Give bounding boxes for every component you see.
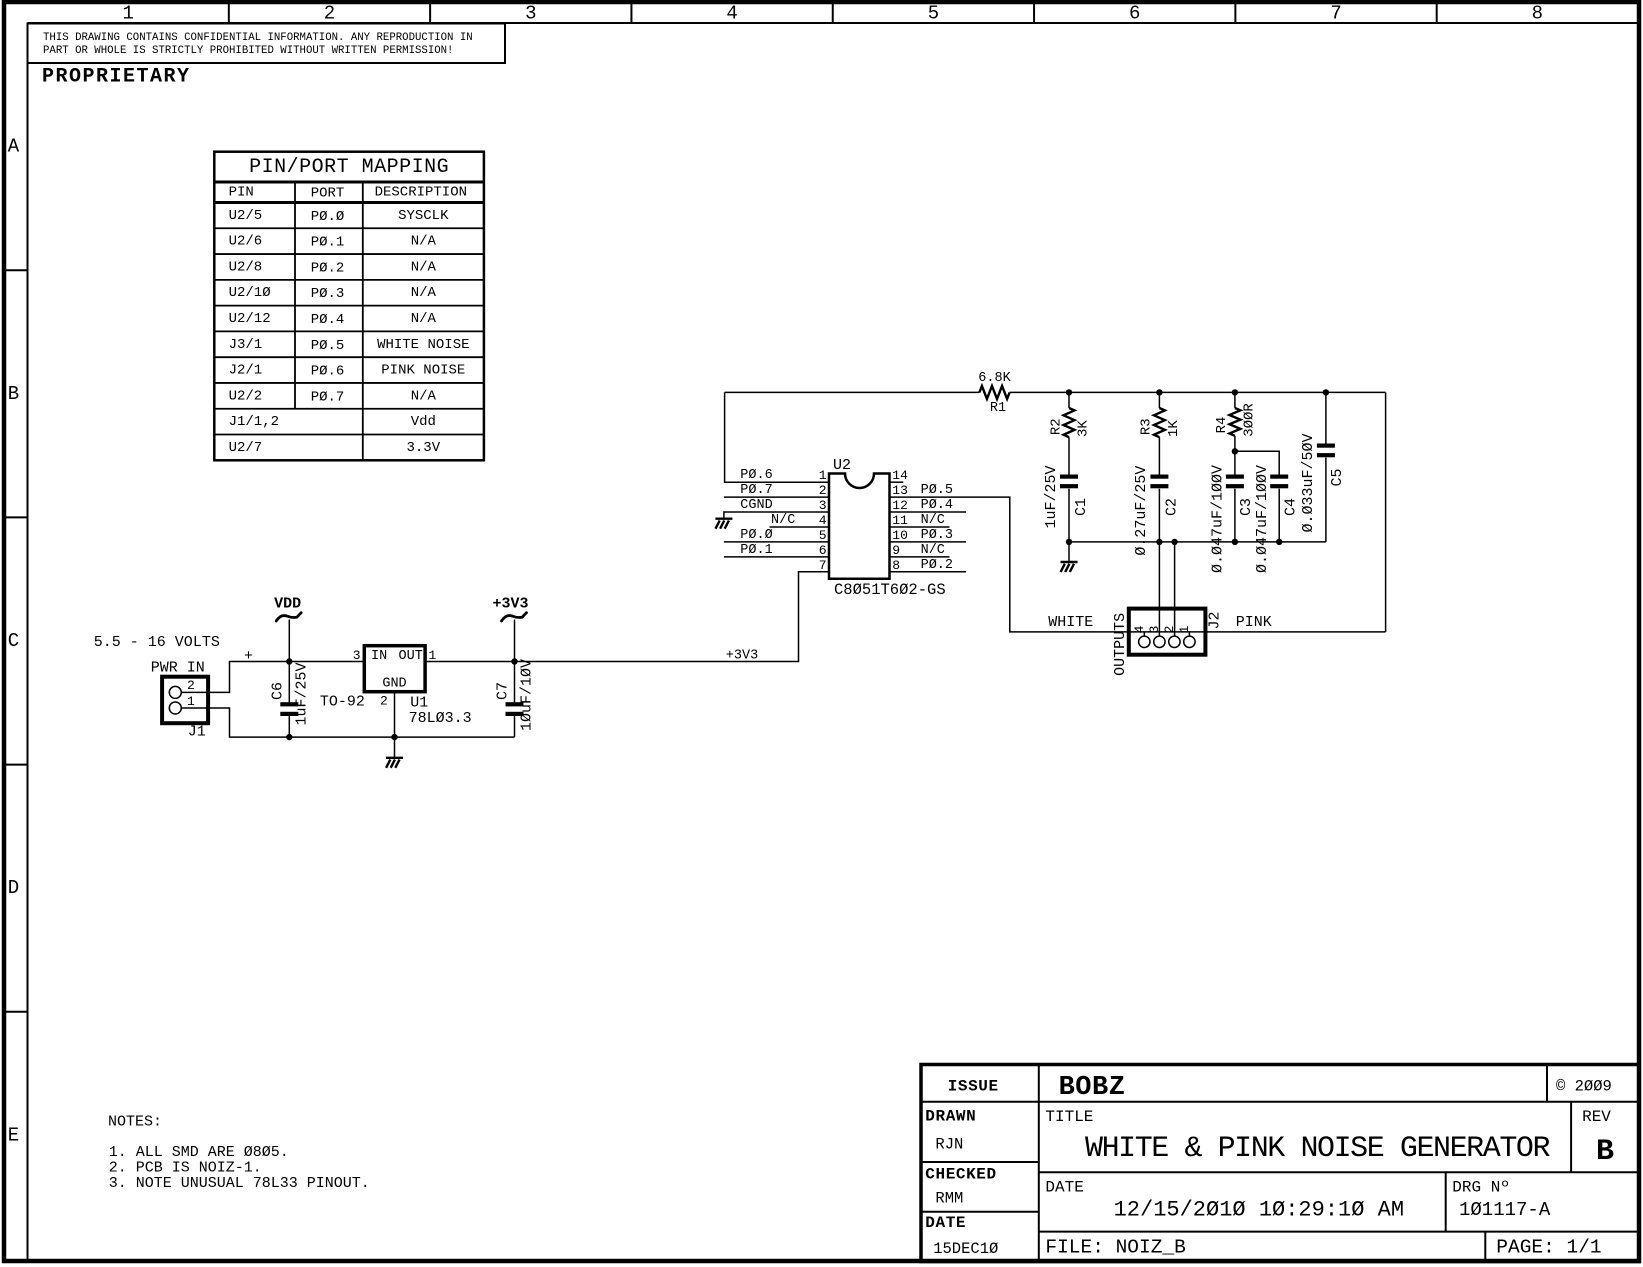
- svg-text:PØ.5: PØ.5: [311, 338, 345, 354]
- svg-text:R2: R2: [1048, 418, 1064, 435]
- svg-text:PART OR WHOLE IS STRICTLY PROH: PART OR WHOLE IS STRICTLY PROHIBITED WIT…: [43, 45, 453, 57]
- svg-text:TO-92: TO-92: [320, 693, 365, 710]
- svg-text:1uF/25V: 1uF/25V: [1043, 465, 1060, 528]
- wire R2 to C1: [1068, 437, 1070, 475]
- svg-text:+3V3: +3V3: [726, 648, 758, 663]
- svg-text:C: C: [8, 630, 19, 652]
- node rail junction R2: [1066, 389, 1072, 395]
- wire rail to C5: [1325, 392, 1327, 444]
- svg-text:11: 11: [892, 513, 908, 528]
- svg-text:N/A: N/A: [411, 388, 437, 404]
- svg-text:DESCRIPTION: DESCRIPTION: [375, 185, 467, 201]
- wire U2 pin12 net P0.4: [890, 511, 967, 513]
- svg-text:Ø.Ø47uF/1ØØV: Ø.Ø47uF/1ØØV: [1210, 465, 1227, 573]
- svg-text:A: A: [8, 136, 20, 158]
- wire top rail P0.6 to R1: [725, 391, 980, 393]
- node rail junction C5: [1323, 389, 1329, 395]
- node R4 bottom junction: [1232, 448, 1238, 454]
- svg-text:PØ.5: PØ.5: [921, 483, 953, 498]
- column index strip: [122, 3, 1543, 25]
- svg-text:5.5 - 16 VOLTS: 5.5 - 16 VOLTS: [94, 634, 220, 651]
- wire U1 GND pin to ground: [394, 692, 396, 758]
- wire J1 pin2 to + rail: [182, 662, 365, 693]
- svg-text:PWR IN: PWR IN: [151, 660, 205, 677]
- svg-text:2. PCB IS NOIZ-1.: 2. PCB IS NOIZ-1.: [109, 1159, 262, 1176]
- svg-text:14: 14: [892, 468, 908, 483]
- svg-text:5: 5: [819, 528, 827, 543]
- node bottom junction C1: [1066, 539, 1072, 545]
- svg-text:1Ø1117-A: 1Ø1117-A: [1459, 1199, 1551, 1221]
- svg-text:PØ.4: PØ.4: [311, 312, 345, 328]
- svg-text:PØ.3: PØ.3: [311, 286, 345, 302]
- svg-text:DRAWN: DRAWN: [925, 1108, 976, 1126]
- svg-text:FILE: NOIZ_B: FILE: NOIZ_B: [1045, 1237, 1185, 1259]
- svg-text:PAGE: 1/1: PAGE: 1/1: [1496, 1237, 1601, 1259]
- title block: [921, 1065, 1639, 1262]
- ground symbol at C1: [1061, 562, 1078, 572]
- svg-text:7: 7: [1330, 3, 1341, 25]
- svg-text:DATE: DATE: [1045, 1179, 1083, 1197]
- row index strip: [5, 136, 28, 1147]
- svg-text:8: 8: [1532, 3, 1543, 25]
- svg-text:C5: C5: [1329, 468, 1346, 486]
- svg-text:B: B: [8, 383, 19, 405]
- svg-text:PØ.1: PØ.1: [740, 543, 772, 558]
- svg-text:3: 3: [1147, 626, 1162, 634]
- wire U2 pin5 net P0.0: [724, 541, 829, 543]
- svg-text:12/15/2Ø1Ø 1Ø:29:1Ø AM: 12/15/2Ø1Ø 1Ø:29:1Ø AM: [1114, 1198, 1404, 1223]
- svg-text:6: 6: [1129, 3, 1140, 25]
- svg-text:U2/5: U2/5: [229, 208, 263, 224]
- svg-text:8: 8: [892, 558, 900, 573]
- wire U2 pin8 net P0.2: [890, 571, 967, 573]
- svg-text:CHECKED: CHECKED: [925, 1166, 996, 1184]
- svg-text:J3/1: J3/1: [229, 337, 263, 353]
- node rail junction R4: [1232, 389, 1238, 395]
- wire J2 pin1 stub: [1188, 632, 1190, 636]
- wire rail to R2: [1068, 392, 1070, 408]
- svg-text:3: 3: [353, 648, 361, 663]
- svg-text:N/A: N/A: [411, 234, 437, 250]
- svg-text:U2/6: U2/6: [229, 234, 263, 250]
- svg-text:R4: R4: [1214, 417, 1230, 434]
- svg-text:OUT: OUT: [399, 649, 423, 664]
- svg-text:REV: REV: [1582, 1108, 1611, 1126]
- connector J2: [1129, 609, 1206, 655]
- svg-text:1ØuF/1ØV: 1ØuF/1ØV: [519, 659, 536, 731]
- svg-text:4: 4: [819, 513, 827, 528]
- svg-text:C1: C1: [1073, 498, 1090, 516]
- svg-text:Ø.Ø33uF/5ØV: Ø.Ø33uF/5ØV: [1300, 433, 1317, 532]
- wire U2 pin4 N/C stub: [770, 526, 830, 528]
- svg-text:THIS DRAWING CONTAINS CONFIDEN: THIS DRAWING CONTAINS CONFIDENTIAL INFOR…: [43, 32, 473, 44]
- svg-text:J2: J2: [1207, 611, 1224, 629]
- svg-text:6.8K: 6.8K: [978, 371, 1011, 386]
- svg-text:VDD: VDD: [274, 596, 301, 613]
- capacitor C1: [1043, 465, 1090, 528]
- svg-text:+3V3: +3V3: [492, 596, 528, 613]
- svg-text:PØ.Ø: PØ.Ø: [740, 528, 772, 543]
- svg-text:12: 12: [892, 498, 908, 513]
- node bottom junction C4: [1276, 539, 1282, 545]
- svg-text:1. ALL SMD ARE Ø8Ø5.: 1. ALL SMD ARE Ø8Ø5.: [109, 1144, 289, 1161]
- wire U2 pin6 net P0.1: [724, 556, 829, 558]
- svg-text:PØ.7: PØ.7: [740, 483, 772, 498]
- svg-text:NOTES:: NOTES:: [108, 1114, 162, 1131]
- svg-text:7: 7: [819, 558, 827, 573]
- wire U2 pin9 N/C stub: [890, 556, 950, 558]
- svg-text:J1: J1: [188, 724, 206, 741]
- svg-text:2: 2: [819, 483, 827, 498]
- svg-text:E: E: [8, 1124, 19, 1146]
- svg-text:PØ.2: PØ.2: [921, 558, 953, 573]
- svg-text:1: 1: [187, 694, 195, 709]
- wire C6 to ground rail: [288, 716, 290, 737]
- ground symbol at U1: [386, 758, 403, 768]
- svg-text:+: +: [244, 648, 253, 665]
- node bottom junction C3: [1232, 539, 1238, 545]
- svg-text:C2: C2: [1163, 498, 1180, 516]
- svg-text:U2/7: U2/7: [229, 440, 263, 456]
- regulator U1 78L03.3: [353, 646, 437, 709]
- svg-text:RJN: RJN: [935, 1136, 963, 1154]
- svg-text:U2/2: U2/2: [229, 388, 263, 404]
- svg-text:N/C: N/C: [921, 513, 945, 528]
- wire J2 pin4 stub: [1143, 632, 1145, 636]
- svg-text:PØ.6: PØ.6: [740, 468, 772, 483]
- svg-text:RMM: RMM: [935, 1190, 963, 1208]
- svg-text:C4: C4: [1282, 498, 1299, 516]
- svg-text:2: 2: [1162, 626, 1177, 634]
- svg-text:PINK: PINK: [1236, 614, 1272, 631]
- svg-text:PØ.1: PØ.1: [311, 235, 345, 251]
- wire U2 pin11 N/C stub: [890, 526, 950, 528]
- wire C5 to bottom rail: [1325, 458, 1327, 542]
- svg-text:IN: IN: [371, 649, 387, 664]
- svg-text:3: 3: [819, 498, 827, 513]
- svg-text:N/C: N/C: [921, 543, 945, 558]
- wire R3 to C2: [1158, 437, 1160, 475]
- svg-text:13: 13: [892, 483, 908, 498]
- svg-text:U2/1Ø: U2/1Ø: [229, 285, 271, 301]
- capacitor C3: [1210, 465, 1255, 573]
- svg-text:3K: 3K: [1076, 420, 1092, 437]
- node C6 bottom junction: [286, 734, 292, 740]
- svg-text:2: 2: [380, 694, 388, 709]
- svg-text:J2/1: J2/1: [229, 363, 263, 379]
- svg-text:D: D: [8, 877, 19, 899]
- svg-text:15DEC1Ø: 15DEC1Ø: [933, 1240, 998, 1258]
- pin/port mapping table: [214, 152, 484, 461]
- svg-text:U2: U2: [833, 457, 851, 474]
- svg-text:BOBZ: BOBZ: [1059, 1073, 1126, 1103]
- svg-text:5: 5: [928, 3, 939, 25]
- svg-text:3ØØR: 3ØØR: [1241, 403, 1257, 437]
- svg-text:N/A: N/A: [411, 285, 437, 301]
- wire U2 pin2 net P0.7: [724, 496, 829, 498]
- wire R1 to C5 rail: [1010, 391, 1386, 393]
- wire C1 junction to ground: [1068, 542, 1070, 562]
- node bottom junction C2: [1156, 539, 1162, 545]
- wire R4 to C3/C4 split: [1234, 436, 1236, 475]
- wire C4 to bottom rail: [1278, 489, 1280, 542]
- connector J1: [162, 677, 208, 724]
- wire J1 pin1 to ground rail: [182, 708, 515, 737]
- svg-text:PØ.7: PØ.7: [311, 389, 345, 405]
- svg-text:U2/8: U2/8: [229, 259, 263, 275]
- svg-text:C3: C3: [1238, 498, 1255, 516]
- capacitor C4: [1254, 465, 1299, 573]
- svg-text:GND: GND: [382, 676, 406, 691]
- svg-text:R3: R3: [1139, 418, 1155, 435]
- wire split to C4: [1235, 451, 1279, 475]
- svg-text:2: 2: [187, 678, 195, 693]
- svg-text:3: 3: [525, 3, 536, 25]
- node rail junction R3: [1156, 389, 1162, 395]
- svg-text:ISSUE: ISSUE: [948, 1078, 999, 1096]
- node C7 top junction: [511, 658, 517, 664]
- capacitor C7: [495, 659, 536, 737]
- svg-text:3.3V: 3.3V: [406, 440, 440, 456]
- svg-text:PINK NOISE: PINK NOISE: [381, 363, 465, 379]
- wire bottom rail: [1069, 541, 1326, 543]
- svg-text:WHITE NOISE: WHITE NOISE: [377, 337, 469, 353]
- svg-text:2: 2: [324, 3, 335, 25]
- node bottom junction J2 pin2 branch: [1171, 539, 1177, 545]
- wire VDD to C6: [288, 620, 290, 704]
- svg-text:C8Ø51T6Ø2-GS: C8Ø51T6Ø2-GS: [834, 581, 946, 599]
- svg-text:B: B: [1596, 1135, 1614, 1169]
- svg-text:PORT: PORT: [311, 186, 345, 202]
- svg-text:C6: C6: [269, 682, 286, 700]
- confidential notice box: [28, 24, 506, 64]
- svg-text:PIN/PORT MAPPING: PIN/PORT MAPPING: [249, 156, 449, 179]
- svg-text:PØ.Ø: PØ.Ø: [311, 209, 345, 225]
- wire C1 to bottom rail: [1068, 489, 1070, 542]
- svg-text:3. NOTE UNUSUAL 78L33 PINOUT.: 3. NOTE UNUSUAL 78L33 PINOUT.: [109, 1175, 370, 1192]
- svg-text:OUTPUTS: OUTPUTS: [1112, 613, 1129, 676]
- svg-text:TITLE: TITLE: [1045, 1108, 1093, 1126]
- resistor R1: [978, 371, 1011, 416]
- wire U1 OUT to +3V3 rail: [425, 572, 829, 662]
- svg-text:SYSCLK: SYSCLK: [398, 208, 449, 224]
- svg-text:R1: R1: [990, 401, 1006, 416]
- svg-text:1uF/25V: 1uF/25V: [293, 662, 310, 725]
- wire U2 pin3 CGND to ground: [724, 512, 829, 518]
- svg-text:© 2ØØ9: © 2ØØ9: [1556, 1078, 1612, 1096]
- svg-text:Ø.Ø47uF/1ØØV: Ø.Ø47uF/1ØØV: [1254, 465, 1271, 573]
- wire U2 pin13 net P0.5 to WHITE output: [890, 497, 1386, 632]
- wire +3V3 to rail: [514, 620, 516, 662]
- svg-text:J1/1,2: J1/1,2: [229, 414, 279, 430]
- svg-text:1: 1: [819, 468, 827, 483]
- svg-text:C7: C7: [495, 682, 512, 700]
- wire rail to R3: [1158, 392, 1160, 408]
- capacitor C2: [1133, 466, 1180, 556]
- power symbol VDD: [274, 596, 301, 622]
- svg-text:10: 10: [892, 528, 908, 543]
- svg-text:1K: 1K: [1166, 420, 1182, 437]
- resistor R3: [1139, 408, 1182, 437]
- wire U2 pin14 stub: [890, 481, 904, 483]
- svg-text:U2/12: U2/12: [229, 311, 271, 327]
- ground symbol at U2 CGND: [715, 519, 732, 529]
- wire rail to PINK output: [1385, 392, 1387, 632]
- wire U2 pin1 net P0.6 to R1 rail: [725, 392, 829, 482]
- capacitor C6: [269, 662, 310, 725]
- svg-text:CGND: CGND: [740, 498, 772, 513]
- svg-text:PØ.4: PØ.4: [921, 498, 953, 513]
- svg-text:WHITE: WHITE: [1048, 614, 1093, 631]
- node U1 gnd junction: [391, 734, 397, 740]
- svg-text:PIN: PIN: [229, 185, 254, 201]
- svg-text:PØ.3: PØ.3: [921, 528, 953, 543]
- svg-text:6: 6: [819, 543, 827, 558]
- svg-text:N/A: N/A: [411, 259, 437, 275]
- power symbol +3V3: [492, 596, 528, 622]
- svg-text:9: 9: [892, 543, 900, 558]
- svg-text:78LØ3.3: 78LØ3.3: [409, 710, 472, 727]
- svg-text:PØ.2: PØ.2: [311, 260, 345, 276]
- svg-text:1: 1: [122, 3, 133, 25]
- wire bottom rail to J2 pin2: [1174, 542, 1176, 636]
- mcu U2 C8051T602-GS: [829, 457, 946, 599]
- node C6 top junction: [286, 658, 292, 664]
- svg-text:N/C: N/C: [771, 513, 795, 528]
- capacitor C5: [1300, 433, 1346, 532]
- wire C3 to bottom rail: [1234, 489, 1236, 542]
- wire rail to R4: [1234, 392, 1236, 408]
- wire C2 to J2 pin3: [1158, 489, 1160, 637]
- svg-text:Vdd: Vdd: [411, 414, 436, 430]
- svg-text:N/A: N/A: [411, 311, 437, 327]
- resistor R4: [1214, 403, 1257, 437]
- resistor R2: [1048, 408, 1091, 437]
- wire U2 pin10 net P0.3: [890, 541, 967, 543]
- svg-text:DRG Nº: DRG Nº: [1452, 1179, 1510, 1197]
- svg-text:DATE: DATE: [925, 1214, 966, 1232]
- svg-text:WHITE & PINK NOISE GENERATOR: WHITE & PINK NOISE GENERATOR: [1085, 1132, 1550, 1166]
- svg-text:4: 4: [726, 3, 737, 25]
- svg-text:PROPRIETARY: PROPRIETARY: [42, 66, 191, 89]
- svg-text:PØ.6: PØ.6: [311, 364, 345, 380]
